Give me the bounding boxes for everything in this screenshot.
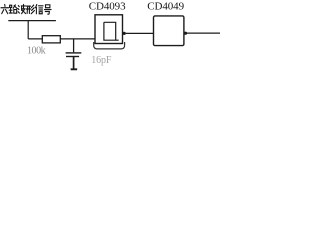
svg-text:100k: 100k [27, 46, 46, 57]
svg-text:CD4049: CD4049 [147, 1, 184, 13]
svg-text:16pF: 16pF [91, 55, 112, 66]
svg-text:CD4093: CD4093 [89, 1, 126, 13]
